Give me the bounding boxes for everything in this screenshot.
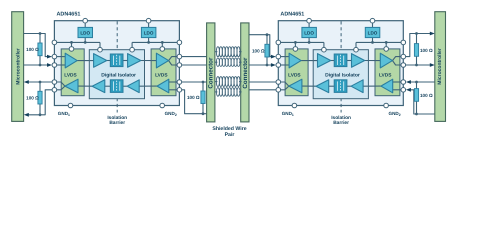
svg-text:Digital Isolator: Digital Isolator xyxy=(101,72,136,78)
pin TOUT- right U1 xyxy=(177,63,182,68)
isolator box bypass pin B U1 xyxy=(130,47,135,52)
pin ROUT+ left U1 xyxy=(52,80,57,85)
svg-text:GND2: GND2 xyxy=(165,111,177,117)
LVDS box 1 (side 1) U2 xyxy=(285,49,308,96)
LVDS driver triangle side1-bottom U1 xyxy=(65,79,78,93)
pin TIN- left U1 xyxy=(52,63,57,68)
internal wire: top row channel U2 xyxy=(301,60,317,62)
pin RIN+ right U1 xyxy=(177,80,182,85)
isolator buffer triangle bottom-left U2 xyxy=(316,80,329,93)
LVDS driver triangle side2-top U2 xyxy=(380,53,392,68)
internal wire: top row fanout to right pins U2 xyxy=(393,57,401,61)
wire: MCU1 TX- to U1 TIN- xyxy=(24,64,50,66)
pin GND2 bottom U1 xyxy=(160,103,165,108)
isolator box bypass pin B U2 xyxy=(354,47,359,52)
LDO 1 stubs U1 xyxy=(84,23,86,27)
LDO 1 box U2 xyxy=(302,27,317,37)
VE2 pin (right edge) U1 xyxy=(177,40,182,45)
wire: connector 1 to U1 RIN+ xyxy=(182,81,207,83)
svg-text:Connector: Connector xyxy=(208,57,215,89)
pin TOUT+ right U2 xyxy=(401,54,406,59)
wire: connector 1 to U1 RIN- (jogged) xyxy=(182,90,207,114)
LVDS driver triangle side1-top U2 xyxy=(289,53,301,68)
microcontroller 2 (right green bar) xyxy=(435,12,446,122)
svg-text:Microcontroller: Microcontroller xyxy=(437,48,443,84)
microcontroller 1 (left green bar) xyxy=(12,12,24,122)
LDO 1 box U1 xyxy=(78,27,93,37)
VDD1 pin (top) U1 xyxy=(83,18,88,23)
LVDS box 2 (side 2) U2 xyxy=(375,49,400,96)
pin ROUT+ left U2 xyxy=(276,80,281,85)
wire: connector 2 to U2 TIN- xyxy=(249,64,273,66)
VE2 regulator rail U2 xyxy=(356,41,401,43)
VDD1 pin (top) U2 xyxy=(307,18,312,23)
svg-text:Connector: Connector xyxy=(242,57,249,89)
IC U2: ADN4651 LVDS isolator (chip outline) xyxy=(278,21,403,106)
isolator box bypass pin A U1 xyxy=(98,47,103,52)
LVDS box 2 (side 2) U1 xyxy=(151,49,176,96)
wire: MCU2 TX- to U2 RIN- (jogged) xyxy=(409,90,435,114)
internal wire: top row channel U1 xyxy=(77,60,93,62)
svg-text:Microcontroller: Microcontroller xyxy=(16,48,22,84)
resistor R1 100 ohm (MCU1 TX termination) xyxy=(39,34,41,66)
resistor R4 100 ohm (U2 TIN termination) xyxy=(266,35,268,65)
isolation barrier dashed line U1 xyxy=(116,21,118,112)
connector 2 (green bar) xyxy=(241,23,249,122)
svg-text:Digital Isolator: Digital Isolator xyxy=(325,72,360,78)
LDO 2 box U1 xyxy=(141,27,156,37)
internal wire: RX pair side2 into receiver U2 xyxy=(393,81,401,83)
VE2 regulator rail U1 xyxy=(132,41,177,43)
isolator buffer triangle top-left U2 xyxy=(318,54,331,68)
svg-text:LDO: LDO xyxy=(368,31,378,36)
LVDS driver triangle side2-top U1 xyxy=(156,53,168,68)
LVDS box2 bypass pin U2 xyxy=(384,47,389,52)
internal wire: bottom row fanout to left pins U2 xyxy=(281,82,289,86)
wire: U1 ROUT+ to MCU1 RX+ xyxy=(28,81,53,83)
pin ROUT- left U2 xyxy=(276,88,281,93)
LDO 2 stubs U1 xyxy=(148,23,150,27)
internal wire: TX pair side1 into driver U2 xyxy=(281,56,290,58)
LVDS box2 bypass pin U1 xyxy=(160,47,165,52)
svg-text:Barrier: Barrier xyxy=(333,120,349,126)
VE1 regulator rail U1 xyxy=(57,41,100,43)
isolator buffer triangle top-right U1 xyxy=(128,54,141,68)
LDO 2 box U2 xyxy=(365,27,380,37)
resistor R6 100 ohm (U2 RIN termination) xyxy=(416,82,418,114)
pin TOUT+ right U1 xyxy=(177,54,182,59)
digital isolator inner box U1 xyxy=(89,50,144,99)
resistor R2 100 ohm (MCU1 RX termination) xyxy=(39,82,41,115)
pin ROUT- left U1 xyxy=(52,88,57,93)
svg-text:Pair: Pair xyxy=(225,132,235,138)
svg-text:100 Ω: 100 Ω xyxy=(420,93,433,98)
svg-text:LVDS: LVDS xyxy=(379,72,392,78)
wire stub into coil row at y=51.7 xyxy=(215,51,218,53)
LVDS driver triangle side2-bottom U2 xyxy=(381,79,393,93)
svg-text:GND2: GND2 xyxy=(389,111,401,117)
LVDS driver triangle side1-bottom U2 xyxy=(289,79,302,93)
internal wire: bottom row fanout to left pins U1 xyxy=(57,82,65,86)
svg-text:100 Ω: 100 Ω xyxy=(252,48,265,53)
pin TIN+ left U2 xyxy=(276,54,281,59)
LVDS box1 bypass pin U2 xyxy=(293,47,298,52)
svg-text:100 Ω: 100 Ω xyxy=(26,47,39,52)
svg-text:LDO: LDO xyxy=(80,31,90,36)
pin TOUT- right U2 xyxy=(401,63,406,68)
wire stub into coil row at y=62.2 xyxy=(215,61,218,63)
VE1 pin (left edge) U2 xyxy=(276,40,281,45)
wire: U2 ROUT- to connector 2 xyxy=(249,89,276,91)
internal wire: top row fanout to right pins U1 xyxy=(169,57,177,61)
isolation transformer symbol bottom U2 xyxy=(334,80,347,93)
internal wire: TX pair side1 into driver U1 xyxy=(57,56,66,58)
pin GND1 bottom U2 xyxy=(292,103,297,108)
wire: U2 TOUT+ to MCU2 (jogged up) xyxy=(406,34,431,57)
VE2 pin (right edge) U2 xyxy=(401,40,406,45)
wire: U1 TOUT- to connector 1 xyxy=(182,64,207,66)
VE1 regulator rail U2 xyxy=(281,41,324,43)
svg-text:Barrier: Barrier xyxy=(109,120,125,126)
LVDS box1 bypass pin U1 xyxy=(69,47,74,52)
internal wire: bottom row channel U2 xyxy=(302,85,316,87)
digital isolator inner box U2 xyxy=(313,50,368,99)
LDO 2 stubs U2 xyxy=(372,23,374,27)
svg-text:GND1: GND1 xyxy=(282,111,294,117)
LDO 1 stubs U2 xyxy=(308,23,310,27)
VE1 pin (left edge) U1 xyxy=(52,40,57,45)
wire: U2 TOUT- to MCU2 xyxy=(406,64,431,66)
isolator buffer triangle bottom-left U1 xyxy=(92,80,105,93)
internal wire: bottom row channel U1 xyxy=(78,85,92,87)
IC U1: ADN4651 LVDS isolator (chip outline) xyxy=(54,21,179,106)
VDD2 pin (top) U1 xyxy=(146,18,151,23)
isolation barrier dashed line U2 xyxy=(340,21,342,112)
svg-text:LDO: LDO xyxy=(304,31,314,36)
pin GND2 bottom U2 xyxy=(384,103,389,108)
wire stub into coil row at y=91.9 xyxy=(215,91,218,93)
pin RIN- right U1 xyxy=(177,88,182,93)
resistor R3 100 ohm (U1 RIN termination) xyxy=(202,82,204,114)
svg-text:ADN4651: ADN4651 xyxy=(280,12,304,18)
connector 1 (green bar) xyxy=(207,23,215,122)
svg-text:ADN4651: ADN4651 xyxy=(57,12,81,18)
svg-text:GND1: GND1 xyxy=(58,111,70,117)
pin TIN- left U2 xyxy=(276,63,281,68)
VDD2 pin (top) U2 xyxy=(370,18,375,23)
wire stub into coil row at y=81.6 xyxy=(215,81,218,83)
wire: U2 ROUT+ to connector 2 xyxy=(249,81,276,83)
svg-text:LVDS: LVDS xyxy=(155,72,168,78)
isolation transformer symbol top U2 xyxy=(334,54,347,67)
pin RIN- right U2 xyxy=(401,88,406,93)
isolation transformer symbol top U1 xyxy=(110,54,123,67)
isolator buffer triangle top-right U2 xyxy=(352,54,365,68)
isolator buffer triangle bottom-right U1 xyxy=(127,80,139,93)
wire: MCU1 TX+ to U1 TIN+ (jogged) xyxy=(24,34,50,57)
pin GND1 bottom U1 xyxy=(68,103,73,108)
LVDS driver triangle side2-bottom U1 xyxy=(157,79,169,93)
pin TIN+ left U1 xyxy=(52,54,57,59)
wire: U1 TOUT+ to connector 1 xyxy=(182,56,207,58)
internal wire: RX pair side2 into receiver U1 xyxy=(169,81,177,83)
svg-text:100 Ω: 100 Ω xyxy=(420,48,433,53)
svg-text:100 Ω: 100 Ω xyxy=(187,95,200,100)
resistor R5 100 ohm (MCU2 RX termination) xyxy=(416,34,418,66)
wire: MCU2 TX+ to U2 RIN+ xyxy=(409,81,435,83)
wire: U1 ROUT- to MCU1 RX- (jogged) xyxy=(28,90,53,115)
svg-text:100 Ω: 100 Ω xyxy=(26,96,39,101)
wire: connector 2 to U2 TIN+ (jogged) xyxy=(249,35,273,57)
svg-text:LVDS: LVDS xyxy=(288,72,301,78)
svg-text:LDO: LDO xyxy=(144,31,154,36)
LVDS driver triangle side1-top U1 xyxy=(65,53,77,68)
pin RIN+ right U2 xyxy=(401,80,406,85)
isolation transformer symbol bottom U1 xyxy=(110,80,123,93)
LVDS box 1 (side 1) U1 xyxy=(61,49,84,96)
isolator buffer triangle top-left U1 xyxy=(94,54,107,68)
svg-text:LVDS: LVDS xyxy=(64,72,77,78)
isolator buffer triangle bottom-right U2 xyxy=(351,80,363,93)
isolator box bypass pin A U2 xyxy=(322,47,327,52)
